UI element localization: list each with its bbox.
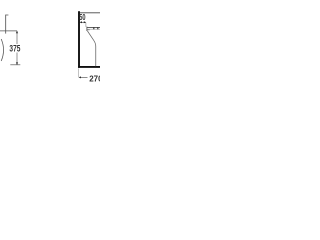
- dimension 50: left arrowhead: [80, 21, 82, 23]
- dimension 375: vertical dim line upper part: [16, 31, 18, 44]
- right view: rim tick 2: [97, 28, 98, 30]
- left view: bowl arc (cropped at left edge): [1, 39, 3, 61]
- right view: wall line (thick): [78, 11, 80, 68]
- dimension 50: extension line: [85, 23, 87, 27]
- svg-text:270: 270: [89, 74, 100, 83]
- dimension 375: top arrowhead: [16, 31, 18, 34]
- right view: front face profile (slope then vertical): [87, 31, 95, 66]
- dimension 270: extension line: [78, 68, 80, 77]
- dimension 50: dim line: [80, 21, 86, 23]
- dimension 375: bottom arrowhead: [16, 62, 18, 65]
- dimension 50: right arrowhead: [84, 21, 86, 23]
- right view: rim tick 1: [93, 28, 94, 30]
- dimension 375: bottom extension line: [10, 64, 20, 66]
- right view: rim lip stub: [87, 29, 90, 31]
- right view: floor line (thick): [78, 66, 100, 68]
- dimension 375: vertical dim line lower part: [16, 53, 18, 65]
- right view: top rim line: [87, 26, 100, 28]
- right view: rim inner line (faint, full width): [87, 28, 100, 30]
- svg-text:375: 375: [9, 44, 20, 54]
- svg-text:50: 50: [79, 13, 85, 22]
- dimension 375: top extension line: [0, 30, 17, 32]
- dimension 270: dim line: [81, 76, 88, 78]
- right view: back edge of fixture: [86, 27, 88, 31]
- left view: object edge vertical with top tick: [6, 15, 9, 34]
- dimension 270: left arrowhead: [79, 76, 82, 78]
- right view: ceiling line: [80, 12, 100, 14]
